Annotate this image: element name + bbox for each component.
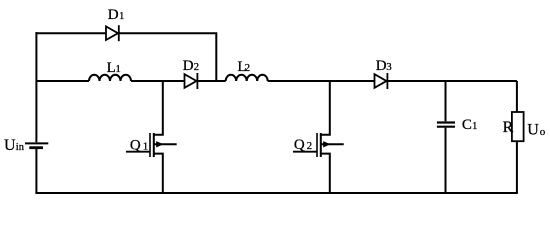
svg-text:D: D [183,58,194,74]
svg-text:C: C [462,117,472,133]
svg-text:2: 2 [194,61,200,73]
svg-text:2: 2 [307,140,313,152]
svg-text:U: U [4,137,16,154]
svg-text:L: L [107,60,116,76]
svg-text:o: o [540,126,546,138]
svg-text:D: D [376,58,387,74]
svg-text:Q: Q [130,138,141,154]
svg-text:1: 1 [115,63,121,75]
svg-text:Q: Q [294,137,305,153]
svg-text:D: D [108,7,119,23]
svg-text:3: 3 [386,61,392,73]
svg-text:2: 2 [245,62,251,74]
svg-text:1: 1 [472,120,478,132]
svg-text:R: R [503,119,514,136]
svg-text:U: U [527,121,539,138]
svg-text:1: 1 [119,10,125,22]
svg-text:in: in [16,142,25,153]
svg-text:1: 1 [143,141,149,153]
